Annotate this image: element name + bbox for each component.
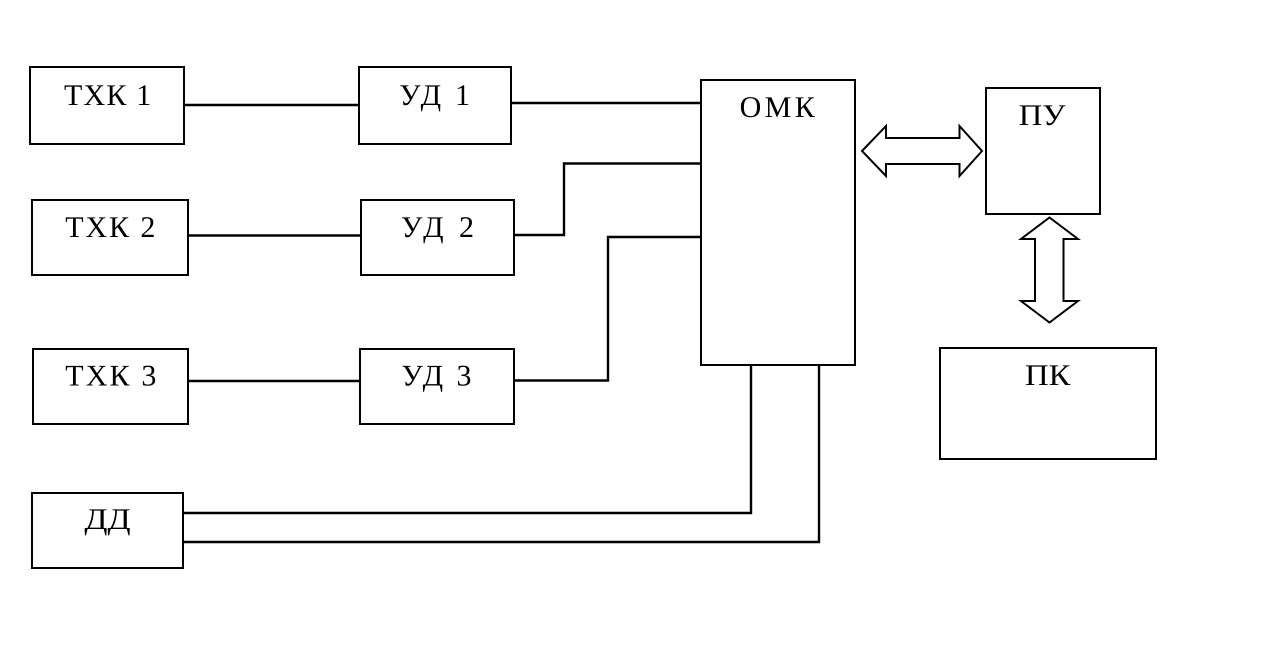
block УД 3 <box>360 349 514 424</box>
svg-text:ОМК: ОМК <box>740 91 816 124</box>
wire ТХК3 to УД3 <box>189 380 360 382</box>
wire УД3 to ОМК (elbow) <box>514 237 701 381</box>
block ОМК <box>701 80 855 365</box>
svg-text:УД 2: УД 2 <box>401 211 474 244</box>
block ТХК 2 <box>32 200 188 275</box>
wire УД1 to ОМК <box>511 102 701 104</box>
block ДД <box>32 493 183 568</box>
svg-text:ТХК 1: ТХК 1 <box>64 79 151 112</box>
wire УД2 to ОМК (elbow) <box>514 164 701 236</box>
block ТХК 3 <box>33 349 188 424</box>
block УД 2 <box>361 200 514 275</box>
block ТХК 1 <box>30 67 184 144</box>
block УД 1 <box>359 67 511 144</box>
svg-text:ПУ: ПУ <box>1019 99 1066 132</box>
wire ДД to ОМК (upper) <box>183 365 751 513</box>
wire ТХК2 to УД2 <box>189 234 361 236</box>
svg-text:ПК: ПК <box>1025 359 1071 392</box>
svg-text:УД 1: УД 1 <box>399 79 470 112</box>
block ПК <box>940 348 1156 459</box>
svg-text:ТХК 3: ТХК 3 <box>65 360 156 393</box>
svg-text:ДД: ДД <box>84 503 130 536</box>
wire ДД to ОМК (lower) <box>183 365 819 542</box>
double arrow ОМК-ПУ <box>862 126 982 176</box>
svg-text:УД 3: УД 3 <box>402 360 472 393</box>
wire ТХК1 to УД1 <box>185 104 359 106</box>
block ПУ <box>986 88 1100 214</box>
double arrow ПУ-ПК <box>1021 218 1078 323</box>
svg-text:ТХК 2: ТХК 2 <box>65 211 155 244</box>
